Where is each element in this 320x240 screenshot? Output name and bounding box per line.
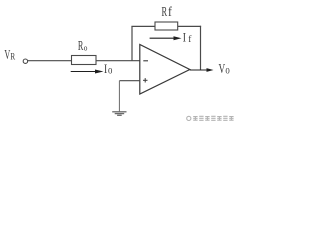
- node VR input terminal: [23, 59, 27, 63]
- svg-text:0: 0: [225, 65, 230, 75]
- arrow If: [150, 36, 182, 40]
- wire feedback left vertical: [131, 26, 133, 60]
- wire input right segment: [96, 60, 140, 62]
- svg-text:R: R: [10, 52, 15, 62]
- wire feedback top left: [131, 25, 155, 27]
- wire noninverting input: [119, 80, 139, 82]
- watermark: [187, 116, 234, 120]
- wire feedback top right: [178, 25, 201, 27]
- label VR: [4, 48, 15, 62]
- label R0: [78, 39, 87, 53]
- wire output with arrow: [190, 68, 214, 72]
- op-amp U1: [140, 45, 190, 95]
- wire input left segment: [28, 60, 72, 62]
- label If: [183, 32, 192, 45]
- svg-text:0: 0: [108, 65, 113, 75]
- resistor R0: [72, 56, 97, 65]
- arrow I0: [71, 70, 104, 74]
- wire feedback right vertical: [200, 26, 202, 70]
- label VO: [219, 61, 231, 76]
- svg-text:o: o: [84, 43, 88, 53]
- ground: [112, 81, 126, 116]
- label I0: [104, 63, 113, 76]
- svg-text:R: R: [162, 5, 168, 19]
- svg-text:V: V: [4, 48, 10, 62]
- svg-text:I: I: [104, 63, 107, 76]
- svg-text:I: I: [183, 32, 186, 45]
- resistor Rf: [155, 22, 178, 30]
- label Rf: [162, 4, 173, 19]
